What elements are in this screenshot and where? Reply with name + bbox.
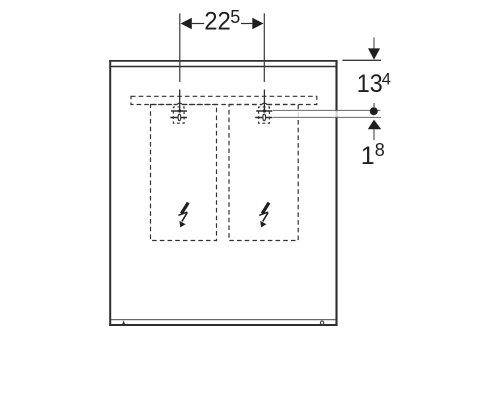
dimension 1.8 arrow <box>368 120 381 130</box>
mains cable double line <box>273 110 381 117</box>
screw mark bottom right <box>320 321 323 324</box>
dimension 22.5 arrow left <box>181 18 192 30</box>
svg-text:8: 8 <box>375 140 385 160</box>
wire hop left over strip line <box>177 103 183 106</box>
cabinet outline bottom edge <box>109 324 337 326</box>
cabinet outline top edge <box>109 60 337 62</box>
dimension 22.5 arrow right <box>252 18 263 30</box>
dimension 13.4 tick line <box>342 59 381 61</box>
svg-text:5: 5 <box>230 7 240 27</box>
left door dashed outline <box>151 105 217 241</box>
right door dashed outline <box>229 105 298 241</box>
cabinet outline left edge <box>109 60 111 326</box>
dimension 1.8 reference dot stem <box>373 103 375 107</box>
left power connection symbol <box>170 90 187 124</box>
cabinet top inner line <box>111 66 336 68</box>
svg-text:22: 22 <box>204 8 231 36</box>
hinge mark bottom left <box>122 320 125 324</box>
installation zone dashed strip <box>131 96 317 104</box>
dimension 13.4 arrow <box>368 48 380 59</box>
dimension 22.5 extension line left <box>179 13 181 82</box>
dimension 1.8 reference dot <box>370 107 378 115</box>
cabinet outline right edge <box>335 60 337 326</box>
wire hop right over strip line <box>262 103 268 106</box>
right power connection symbol <box>255 90 272 124</box>
cabinet bottom inner line <box>111 319 336 321</box>
dimension 22.5 extension line right <box>263 13 265 82</box>
svg-text:1: 1 <box>361 142 375 170</box>
svg-text:13: 13 <box>357 70 383 98</box>
dimension 22.5 line segments <box>192 23 204 25</box>
flash bolt right <box>259 203 269 228</box>
dimension 13.4 arrow stem <box>373 37 375 48</box>
svg-text:4: 4 <box>382 71 391 89</box>
dimension 1.8 arrow stem <box>373 129 375 140</box>
flash bolt left <box>178 203 188 228</box>
